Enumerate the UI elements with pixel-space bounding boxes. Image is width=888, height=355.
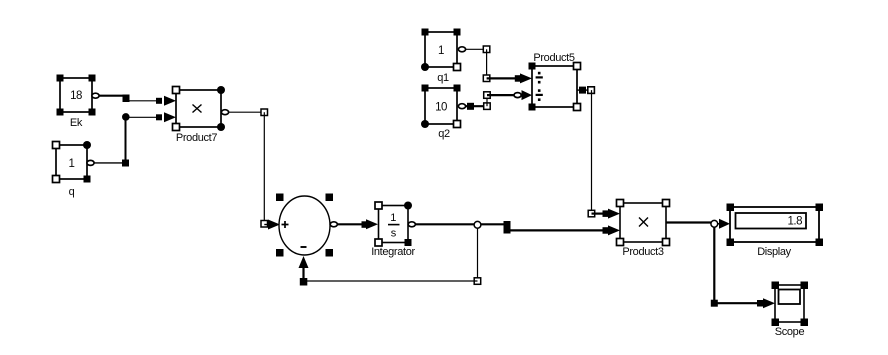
wire q1 to Product5 in1 [466, 46, 533, 83]
svg-text:Integrator: Integrator [371, 246, 415, 258]
svg-text:1: 1 [390, 212, 396, 224]
svg-text:q1: q1 [437, 72, 449, 84]
wire sum to Integrator [337, 219, 378, 229]
wire Product7 to sum [229, 109, 281, 230]
scope block Scope [772, 282, 809, 339]
svg-text:Product7: Product7 [176, 132, 217, 144]
svg-text:q2: q2 [438, 128, 450, 140]
constant block q [53, 141, 95, 198]
wire Integrator to Product3 in2 with branch junction [415, 221, 620, 235]
product block Product7 [173, 86, 229, 144]
svg-text:1.8: 1.8 [788, 216, 803, 228]
integrator block [371, 202, 415, 259]
wire junction to Scope [711, 227, 775, 308]
product block Product5 [529, 52, 581, 111]
wire Product5 to Product3 in1 [577, 87, 620, 219]
wire q2 to Product5 in2 [466, 90, 533, 110]
svg-text:10: 10 [435, 102, 447, 114]
constant block Ek [57, 75, 100, 130]
wire q to Product7 in2 [94, 112, 176, 166]
svg-text:Display: Display [757, 246, 791, 258]
display block Display [727, 204, 824, 259]
product block Product3 [617, 200, 670, 259]
svg-text:1: 1 [69, 158, 75, 170]
wire Ek to Product7 in1 [99, 95, 176, 106]
feedback wire junction to sum minus input [299, 228, 481, 286]
constant block q2 [421, 85, 466, 141]
constant block q1 [421, 29, 466, 85]
svg-text:Product5: Product5 [533, 52, 574, 64]
svg-text:q: q [69, 186, 75, 198]
svg-text:18: 18 [70, 90, 82, 102]
svg-text:1: 1 [438, 45, 444, 57]
wire Product3 to Display with junction [666, 219, 730, 229]
sum block [276, 194, 337, 257]
svg-text:Ek: Ek [70, 117, 83, 129]
svg-text:Product3: Product3 [622, 246, 663, 258]
svg-text:Scope: Scope [775, 326, 805, 338]
